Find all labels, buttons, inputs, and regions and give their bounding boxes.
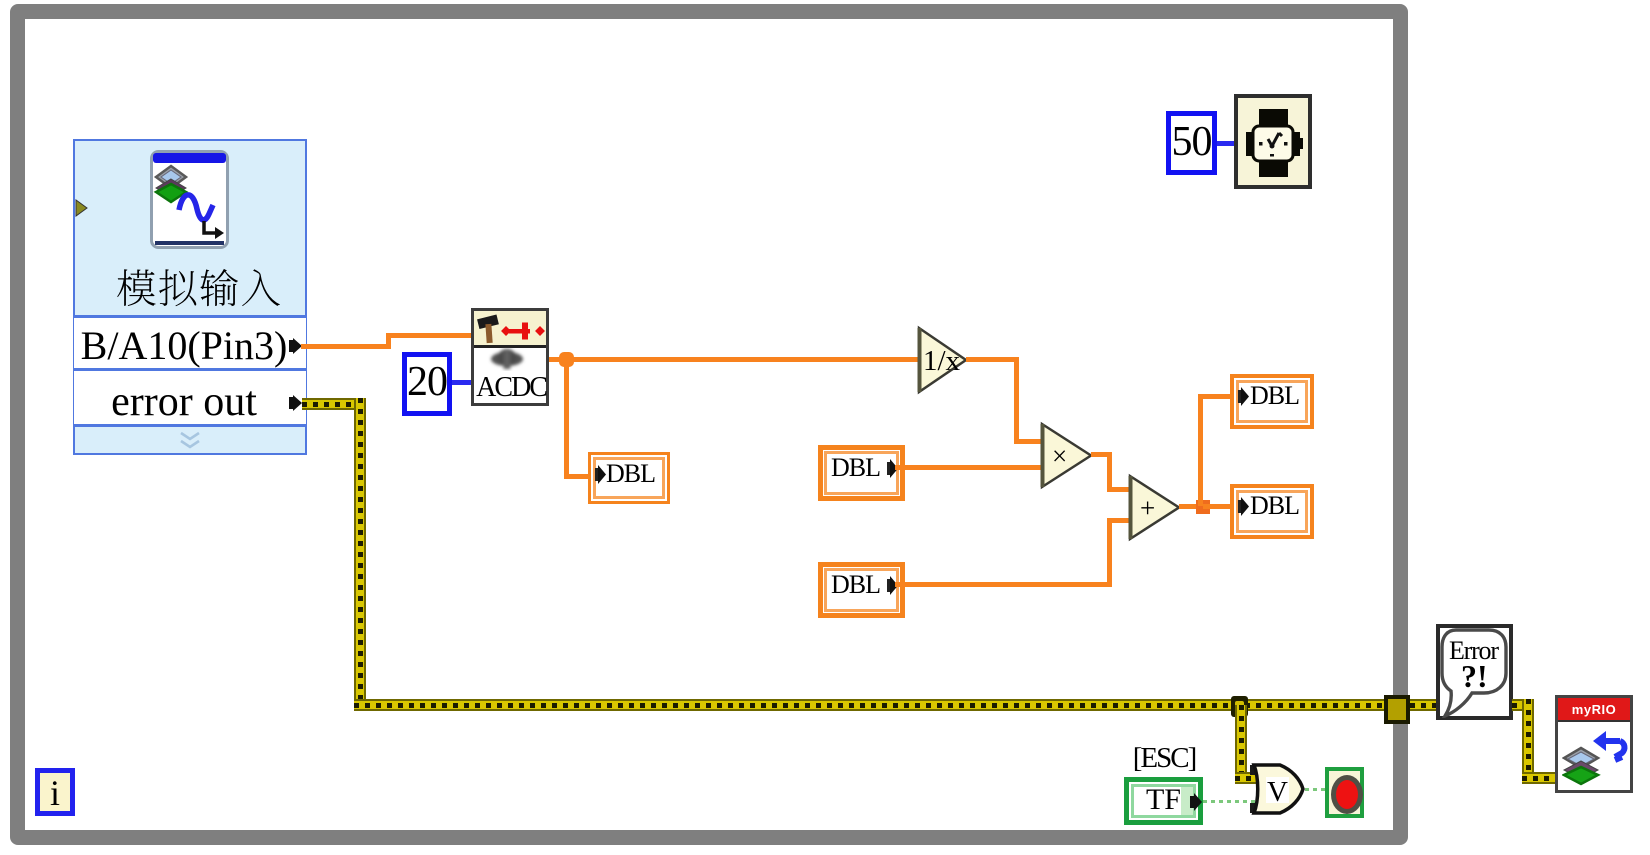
green wire TF to Or (1203, 800, 1258, 803)
DBL indicator 4 (1230, 374, 1314, 429)
long orange wire to 1/x (549, 357, 919, 362)
orange wire express to ACDC (301, 344, 391, 349)
express VI icon (150, 150, 229, 249)
hammer icon (476, 314, 506, 345)
Express VI 模拟输入 (Analog Input) (73, 139, 307, 455)
模拟输入 text (SVG glyphs) (116, 260, 286, 310)
numeric constant 20 (402, 352, 452, 416)
add (1127, 473, 1185, 543)
green wire Or to stop (1305, 788, 1326, 791)
ACDC amplitude measurement block (471, 308, 549, 406)
junction dot (559, 352, 574, 367)
wire DBL2 to multiply (895, 465, 1042, 470)
stop button (1325, 767, 1364, 818)
wire multiply out (1091, 452, 1112, 457)
DBL control 2 (818, 445, 905, 501)
DBL control 3 (818, 562, 905, 618)
ACDC text (474, 374, 548, 404)
Or gate (1249, 762, 1307, 816)
bottom chevron strip (179, 431, 201, 451)
Error?! simple error handler (1436, 624, 1513, 720)
blue wire 20 to ACDC (452, 380, 472, 385)
wire 1/x out (966, 357, 1019, 362)
B/A10(Pin3) row (76, 324, 292, 368)
blue wire 50 to wait (1217, 141, 1235, 146)
error out row (74, 371, 306, 427)
express VI error-in arrow (75, 199, 89, 217)
iteration terminal i (35, 768, 75, 816)
wire DBL3 to add (895, 582, 1112, 587)
wire add out with junction (1179, 504, 1206, 509)
branch to Or gate (1235, 705, 1247, 783)
branch down to DBL1 (564, 362, 569, 479)
error wire from express VI (302, 398, 366, 410)
red pattern (501, 322, 545, 340)
wait (ms) clock (1234, 94, 1312, 189)
gray blob (483, 345, 533, 375)
error wire junction (1231, 696, 1248, 717)
svg-text:V: V (1267, 776, 1288, 808)
DBL indicator 1 (588, 452, 670, 504)
error out arrow (289, 395, 303, 411)
svg-text:?!: ?! (1461, 658, 1488, 694)
divider (74, 315, 306, 371)
reciprocal 1/x (916, 325, 972, 395)
error wire handler to myRIO (1512, 699, 1534, 711)
numeric constant 50 (1166, 111, 1217, 175)
myRIO reset/close (1555, 695, 1633, 793)
DBL indicator 5 (1230, 484, 1314, 539)
svg-text:×: × (1052, 441, 1067, 471)
svg-text:+: + (1140, 493, 1155, 523)
multiply (1039, 421, 1097, 491)
svg-text:1/x: 1/x (923, 345, 961, 377)
tunnel through loop border (1384, 695, 1410, 724)
[ESC] label (1124, 744, 1204, 773)
TF boolean control (1124, 777, 1203, 825)
B/A10 output arrow (289, 338, 303, 354)
